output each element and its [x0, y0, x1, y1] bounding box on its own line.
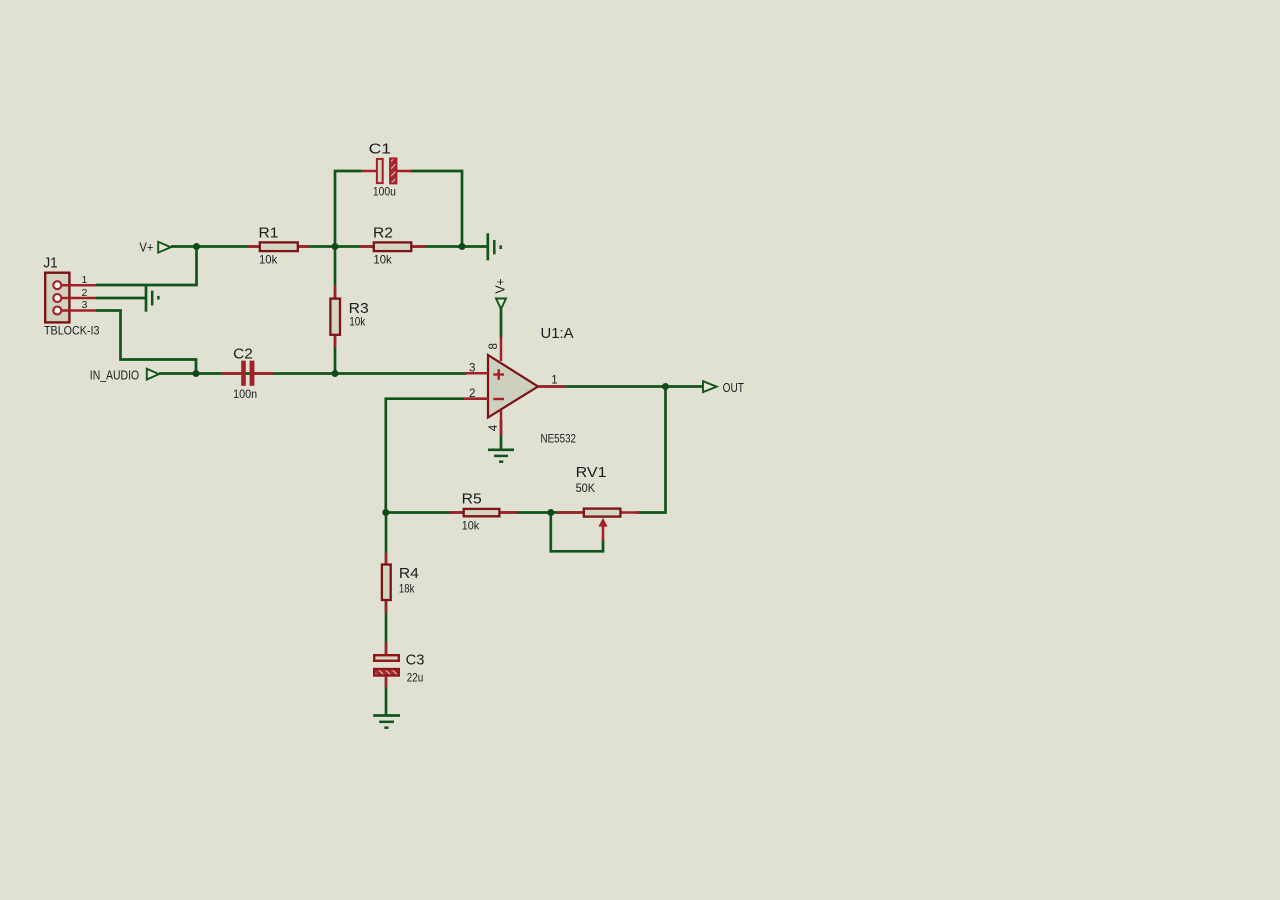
junction node: V+ rail / J1 pin1 [193, 243, 200, 250]
wire: bottom line R5 to RV1 [386, 511, 582, 514]
junction node: input wire / R3 bottom [332, 370, 339, 377]
svg-text:V+: V+ [493, 279, 508, 294]
capacitor C3 pins [385, 642, 388, 687]
wire: input line (IN_AUDIO terminal through C2 to op-amp pin 3) [159, 372, 467, 375]
power terminal V+ (left) [139, 239, 170, 254]
resistor R3 body [330, 299, 340, 335]
power terminal V+ (above op-amp, rotated down) [493, 279, 508, 310]
svg-text:18k: 18k [399, 582, 415, 596]
junction node: R2 right / C1 right / ground [459, 243, 466, 250]
ground (at J1 pins 1-2, rotated right) [146, 284, 158, 311]
junction node: R1/R2/R3/C1 bias node [332, 243, 339, 250]
junction node: R5 left / R4 / feedback [382, 509, 389, 516]
svg-text:10k: 10k [373, 253, 392, 267]
svg-text:NE5532: NE5532 [541, 431, 577, 445]
capacitor C3 bottom plate (hatched) [374, 669, 399, 676]
svg-text:10k: 10k [349, 315, 366, 329]
svg-text:C3: C3 [406, 652, 425, 669]
ground (right of R2, rotated right) [488, 233, 501, 260]
wire: C1 left leg [335, 171, 362, 247]
svg-text:100u: 100u [373, 185, 396, 199]
potentiometer RV1 body [584, 509, 621, 517]
wire: J1 pin1 to V+ rail [96, 247, 197, 286]
connector J1 pin wires [62, 285, 97, 310]
ground (below C3) [373, 716, 400, 728]
output terminal OUT [703, 381, 744, 395]
capacitor C1 pins [361, 170, 411, 173]
capacitor C2 right plate [250, 361, 255, 386]
resistor R5 pins [450, 511, 517, 514]
resistor R2 pins [360, 245, 426, 248]
wire: RV1 wiper loop [551, 513, 603, 552]
svg-text:R1: R1 [259, 225, 279, 242]
svg-text:R5: R5 [462, 490, 482, 507]
svg-text:2: 2 [82, 287, 88, 299]
svg-text:RV1: RV1 [576, 464, 607, 481]
wire: C3 bottom to ground [385, 677, 388, 715]
capacitor C2 left plate [241, 361, 246, 386]
wire: J1 pin3 to input node [96, 311, 196, 374]
svg-text:TBLOCK-I3: TBLOCK-I3 [44, 324, 100, 338]
svg-text:100n: 100n [233, 387, 257, 401]
wire: op-amp V+ supply feed [500, 309, 503, 339]
resistor R4 body [382, 565, 391, 601]
svg-text:1: 1 [551, 374, 557, 386]
ground (below op-amp pin 4) [488, 450, 514, 462]
svg-text:OUT: OUT [723, 381, 745, 395]
resistor R2 body [374, 242, 412, 251]
op-amp U1 plus input mark [493, 369, 504, 380]
svg-text:V+: V+ [139, 239, 153, 254]
op-amp U1 output pin wire [538, 385, 566, 388]
svg-text:J1: J1 [43, 255, 57, 272]
junction node: R5 right / RV1 wiper [547, 509, 554, 516]
wire: feedback from op-amp pin 2 down to R5 node [386, 399, 488, 513]
svg-text:U1:A: U1:A [541, 325, 574, 342]
resistor R1 pins [248, 245, 310, 248]
op-amp U1 pin 4 wire [500, 410, 503, 436]
resistor R5 body [464, 509, 500, 516]
svg-text:8: 8 [488, 343, 500, 349]
svg-text:IN_AUDIO: IN_AUDIO [90, 367, 139, 382]
svg-text:R4: R4 [399, 565, 419, 582]
wire: R3 branch (rail to input wire) [334, 247, 337, 374]
potentiometer RV1 pins [557, 511, 640, 514]
svg-text:50K: 50K [576, 481, 596, 495]
svg-text:3: 3 [469, 363, 475, 375]
op-amp U1 triangle body [488, 355, 538, 418]
wire: op-amp output to OUT terminal [538, 385, 703, 388]
wire: R4 branch (node to C3 top) [385, 513, 388, 655]
connector J1 pin circles [53, 281, 61, 314]
input terminal IN_AUDIO [90, 367, 159, 382]
svg-text:R2: R2 [373, 225, 393, 242]
wire: op-amp pin 4 to ground [500, 420, 503, 449]
svg-text:10k: 10k [462, 518, 480, 532]
svg-text:10k: 10k [259, 253, 278, 267]
svg-text:4: 4 [488, 424, 500, 431]
junction node: output / feedback [662, 383, 669, 390]
svg-text:C2: C2 [233, 346, 253, 363]
resistor R4 pins [385, 553, 388, 613]
wire: C1 right leg [411, 171, 463, 247]
op-amp U1 pin 8 wire [500, 337, 503, 362]
op-amp U1 pin 2 wire [463, 397, 488, 400]
wire: J1 pin2 to ground [96, 297, 146, 300]
capacitor C2 pins [221, 372, 273, 375]
potentiometer RV1 wiper arrow [598, 518, 607, 541]
capacitor C3 top plate [374, 655, 399, 661]
svg-text:22u: 22u [407, 670, 424, 684]
svg-text:2: 2 [469, 388, 475, 400]
svg-text:3: 3 [82, 299, 88, 311]
op-amp U1 minus input mark [493, 398, 504, 400]
op-amp U1 pin 3 wire [466, 372, 488, 375]
connector J1 body [45, 273, 69, 323]
capacitor C1 left plate [377, 159, 383, 183]
resistor R1 body [260, 242, 298, 251]
svg-text:1: 1 [82, 274, 88, 286]
wire: output node down to RV1 right pin [637, 387, 666, 513]
capacitor C1 right plate (hatched) [390, 158, 396, 183]
junction node: input wire / J1 pin3 [193, 370, 200, 377]
resistor R3 pins [334, 286, 337, 348]
svg-text:C1: C1 [369, 141, 392, 158]
wire: top bias rail (V+ terminal to ground right of R2) [171, 245, 488, 248]
